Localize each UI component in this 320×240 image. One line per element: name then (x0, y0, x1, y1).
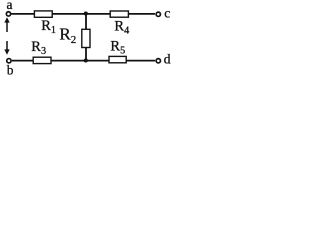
svg-text:R3: R3 (31, 39, 46, 57)
resistor R2 (82, 29, 90, 47)
terminal a (6, 12, 10, 16)
resistor R5 (109, 56, 126, 62)
svg-text:c: c (164, 6, 170, 21)
wire R2 branch (85, 14, 87, 61)
junction bottom node (84, 58, 88, 62)
junction top node (84, 11, 88, 15)
resistor R3 (33, 57, 51, 63)
svg-text:b: b (7, 63, 14, 77)
svg-text:R4: R4 (114, 18, 129, 36)
svg-text:R1: R1 (41, 18, 56, 36)
resistor R1 (34, 11, 52, 17)
current arrow at terminal b (4, 41, 9, 55)
current arrow at terminal a (4, 17, 9, 32)
terminal d (156, 59, 160, 63)
svg-text:R2: R2 (59, 24, 76, 46)
terminal c (156, 12, 160, 16)
svg-text:d: d (164, 51, 171, 66)
terminal b (7, 59, 11, 63)
resistor R4 (110, 11, 128, 17)
svg-text:a: a (7, 0, 13, 12)
svg-text:R5: R5 (110, 38, 125, 56)
wire bottom rail (12, 60, 155, 62)
wire top rail (11, 13, 155, 15)
